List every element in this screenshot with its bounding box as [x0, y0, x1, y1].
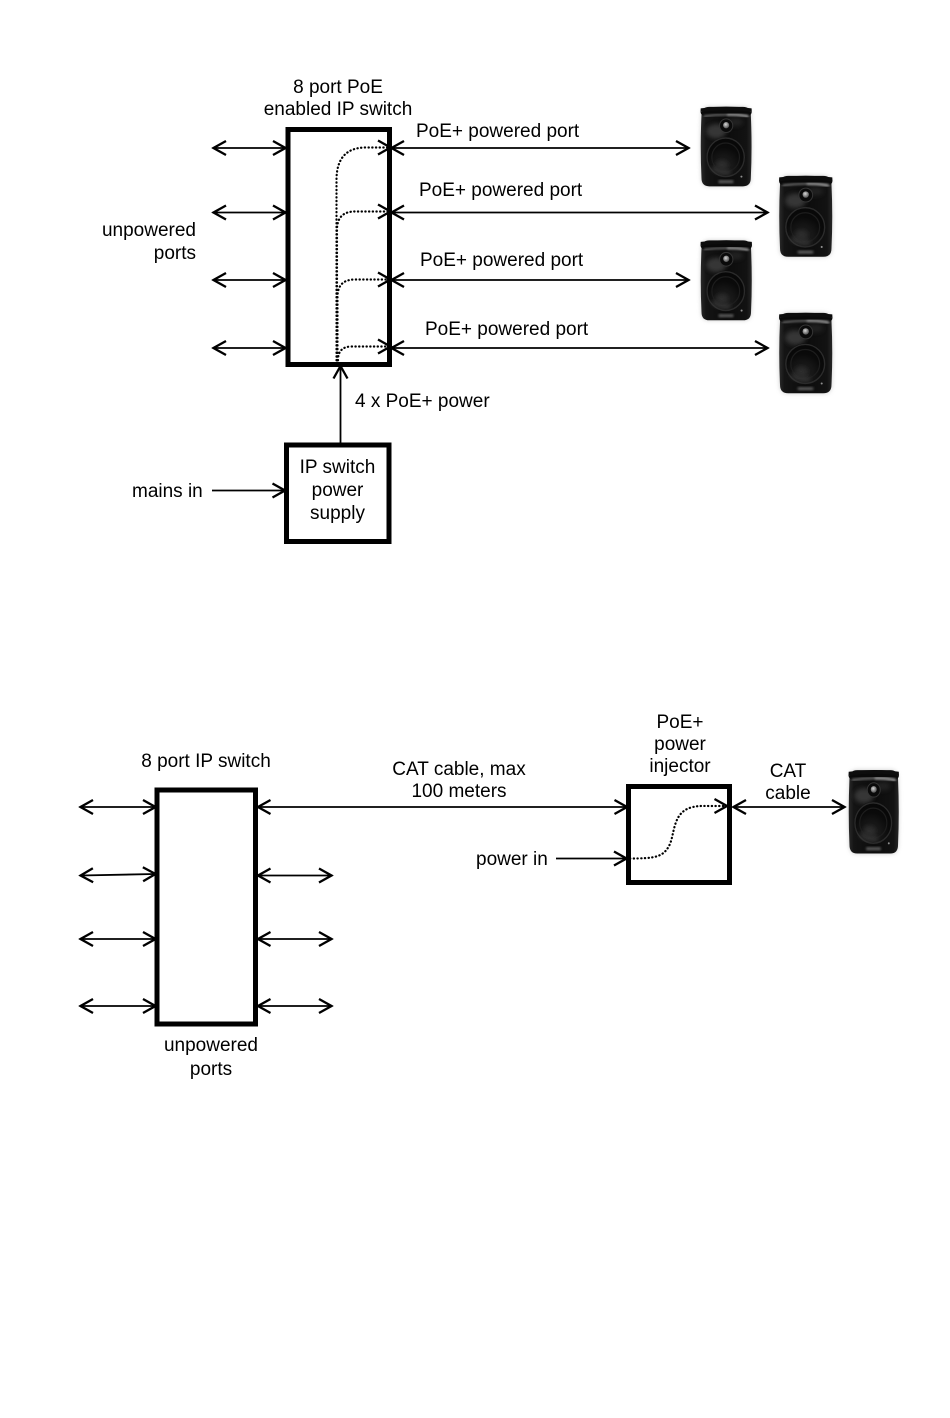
svg-text:8 port PoE: 8 port PoE	[293, 77, 383, 98]
svg-text:unpowered: unpowered	[102, 220, 196, 241]
svg-text:8 port IP switch: 8 port IP switch	[141, 751, 271, 772]
svg-text:injector: injector	[649, 756, 711, 777]
svg-text:unpowered: unpowered	[164, 1035, 258, 1056]
svg-text:ports: ports	[190, 1059, 232, 1080]
svg-text:supply: supply	[310, 503, 365, 524]
svg-text:CAT cable, max: CAT cable, max	[392, 759, 526, 780]
svg-text:power: power	[312, 480, 364, 501]
svg-text:mains in: mains in	[132, 481, 203, 502]
svg-text:PoE+: PoE+	[656, 712, 703, 733]
svg-text:4 x PoE+ power: 4 x PoE+ power	[355, 391, 490, 412]
svg-text:power: power	[654, 734, 706, 755]
svg-text:ports: ports	[154, 243, 196, 264]
svg-text:CAT: CAT	[770, 761, 807, 782]
svg-text:PoE+ powered port: PoE+ powered port	[419, 180, 583, 201]
svg-text:IP switch: IP switch	[300, 457, 376, 478]
svg-text:cable: cable	[765, 783, 810, 804]
svg-text:power in: power in	[476, 849, 548, 870]
svg-text:100 meters: 100 meters	[411, 781, 506, 802]
svg-text:enabled IP switch: enabled IP switch	[264, 99, 413, 120]
svg-text:PoE+ powered port: PoE+ powered port	[420, 250, 584, 271]
svg-text:PoE+ powered port: PoE+ powered port	[425, 319, 589, 340]
svg-text:PoE+ powered port: PoE+ powered port	[416, 121, 580, 142]
